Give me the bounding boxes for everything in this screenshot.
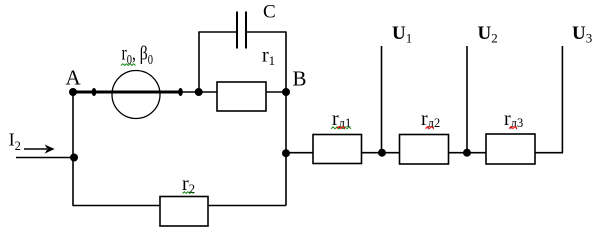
wire right rail from capacitor top down through B to bottom <box>285 32 287 206</box>
label rd1 <box>332 108 351 130</box>
junction dot U2 tap <box>463 149 471 157</box>
wire capacitor branch top right <box>246 31 287 33</box>
wire U1 tap vertical <box>381 46 383 153</box>
label A <box>66 65 82 89</box>
resistor Rd2 <box>400 135 449 165</box>
junction dot input node <box>70 154 78 162</box>
galvanometer terminal left <box>92 88 97 96</box>
spellcheck squiggle red under rd2 <box>426 127 434 129</box>
label U3 <box>572 23 592 46</box>
galvanometer r0,beta0 circle <box>112 71 160 119</box>
resistor Rd3 <box>486 134 535 164</box>
wire left rail A down to bottom <box>72 92 74 206</box>
wire r2 to right rail bottom <box>208 205 286 207</box>
label C <box>263 2 276 23</box>
label B <box>293 66 307 90</box>
wire thick galvanometer line A to terminal <box>73 91 181 94</box>
current arrow I2 <box>24 145 55 154</box>
wire capacitor branch left vertical <box>198 32 200 92</box>
wire input stub I2 <box>16 157 74 159</box>
junction dot capacitor branch left <box>195 88 203 96</box>
node A junction dot <box>69 88 77 96</box>
wire node B junction to rd1 <box>286 152 313 154</box>
label rd3 <box>504 108 523 130</box>
galvanometer terminal right <box>178 88 183 96</box>
label I2 <box>9 130 21 154</box>
label U1 <box>392 23 412 46</box>
wire capacitor branch top left <box>198 31 237 33</box>
svg-text:B: B <box>293 66 307 90</box>
label U2 <box>478 23 498 46</box>
svg-text:C: C <box>263 2 276 23</box>
svg-text:A: A <box>66 65 82 89</box>
junction dot U1 tap <box>378 149 386 157</box>
wire terminal to r1 left <box>181 91 217 93</box>
wire rd1 to rd2 <box>362 152 400 154</box>
spellcheck squiggle red under rd3 <box>509 127 517 129</box>
label rd2 <box>421 108 440 130</box>
label r2 <box>182 173 195 196</box>
node B junction dot <box>282 88 290 96</box>
resistor R2 <box>160 197 208 227</box>
resistor Rd1 <box>313 135 362 164</box>
spellcheck squiggle green+red under rd1 <box>331 127 351 129</box>
label r0, beta0 <box>122 43 154 68</box>
junction dot right rail tap <box>282 149 290 157</box>
wire rd3 to U3 tap <box>535 152 563 154</box>
spellcheck squiggle green under r2 subscript <box>183 192 194 194</box>
label r1 <box>262 45 275 69</box>
wire rd2 to rd3 <box>449 152 487 154</box>
spellcheck squiggle green under r0 <box>121 64 135 66</box>
wire r1 right to node B <box>266 91 286 93</box>
wire bottom left to r2 <box>72 205 160 207</box>
capacitor C plates <box>237 12 246 49</box>
wire U2 tap vertical <box>466 46 468 153</box>
resistor R1 <box>217 82 266 111</box>
wire U3 tap vertical <box>561 46 563 153</box>
